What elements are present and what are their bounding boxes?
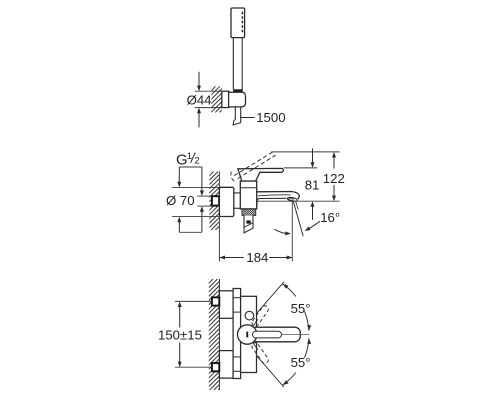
dim 44 lower arrow [198,112,200,127]
raised handle ghost (dash-dot) [234,151,274,176]
dim 70 lower arrow [178,221,180,232]
dim 122 lower arrow [333,185,335,197]
16deg right leader arrow [307,221,320,230]
leader line for 1500 [241,117,255,119]
svg-text:1500: 1500 [256,110,285,125]
G1/2 underline [179,166,202,168]
shower handle stick [232,38,234,90]
dim G1/2 lower arrow [201,211,203,233]
shower head spray face (dotted) [241,12,243,34]
svg-text:55°: 55° [291,355,311,370]
dim 81 lower arrow [312,206,314,220]
screw circle [245,311,254,320]
dim 70 upper arrow [178,167,180,183]
svg-text:122: 122 [323,171,345,186]
spout [257,192,300,200]
faucet body [240,181,256,209]
pivot tick [246,332,248,338]
svg-text:184: 184 [246,250,268,265]
extension line lever top (81) [284,167,317,169]
lever capsule [250,327,300,342]
bracket socket [229,92,246,107]
extension line top (122) [271,151,339,153]
knurled ring [242,209,256,216]
55deg arc upper [283,284,296,297]
dim 122 upper arrow [333,157,335,169]
dim 150 extension lines [175,300,212,302]
escutcheon (Ø70 flange) [219,187,233,216]
svg-text:150±15: 150±15 [158,328,202,343]
svg-text:Ø 70: Ø 70 [166,193,195,208]
shower outlet (below body) [244,215,253,233]
lever handle (closed) [238,168,283,181]
aerator [287,197,297,202]
lower wall nut [212,363,219,371]
dim 44 upper arrow [198,72,200,87]
dim 150 lower arrow [178,362,182,368]
55deg ray upper [257,282,284,313]
body front slab [241,296,257,372]
lever inner contour [253,331,282,338]
svg-text:16°: 16° [320,210,340,225]
upper wall nut [212,297,219,305]
G1/2 lower connector [179,231,202,233]
shower head [231,8,245,38]
svg-text:2: 2 [194,155,199,166]
extension line spout outlet [258,200,340,202]
water stream lines [293,201,303,236]
dim 70 extension lines [172,186,219,188]
svg-text:81: 81 [305,177,320,192]
body back plate [233,289,241,379]
G1/2 connection nut [212,196,219,205]
55deg ray lower [257,356,284,387]
55deg arc lower [305,338,309,357]
upper eccentric block [219,291,233,319]
dim 44 extension line bottom [195,107,222,109]
body stub behind escutcheon [234,192,241,194]
wall face line (bottom section) [218,279,220,390]
wall face line / 184 left extension [218,172,220,262]
G1/2 extension lines [197,195,212,197]
dim 44 extension line top [195,90,222,92]
handle swing dashed arc [231,172,236,182]
dim 184 line [219,257,243,259]
svg-text:Ø44: Ø44 [187,93,212,108]
centerline [282,334,310,336]
shower hose [234,107,236,121]
dark connector band [233,89,243,92]
lever ghost lower (dashed, rotated 55) [251,341,270,364]
wall bracket plate [222,91,229,107]
vertical reference line from spout tip / 184 right extension [291,201,293,261]
dim 81 upper arrow [312,148,314,163]
svg-text:55°: 55° [291,301,311,316]
pivot circle [238,325,257,344]
dim G1/2 upper arrow [201,167,203,192]
lever ghost upper (dashed, rotated 55) [251,305,270,328]
16deg left arc arrow [274,229,287,233]
lower eccentric block [219,351,233,379]
hose end [233,120,241,125]
dim 150 upper arrow [178,301,182,307]
